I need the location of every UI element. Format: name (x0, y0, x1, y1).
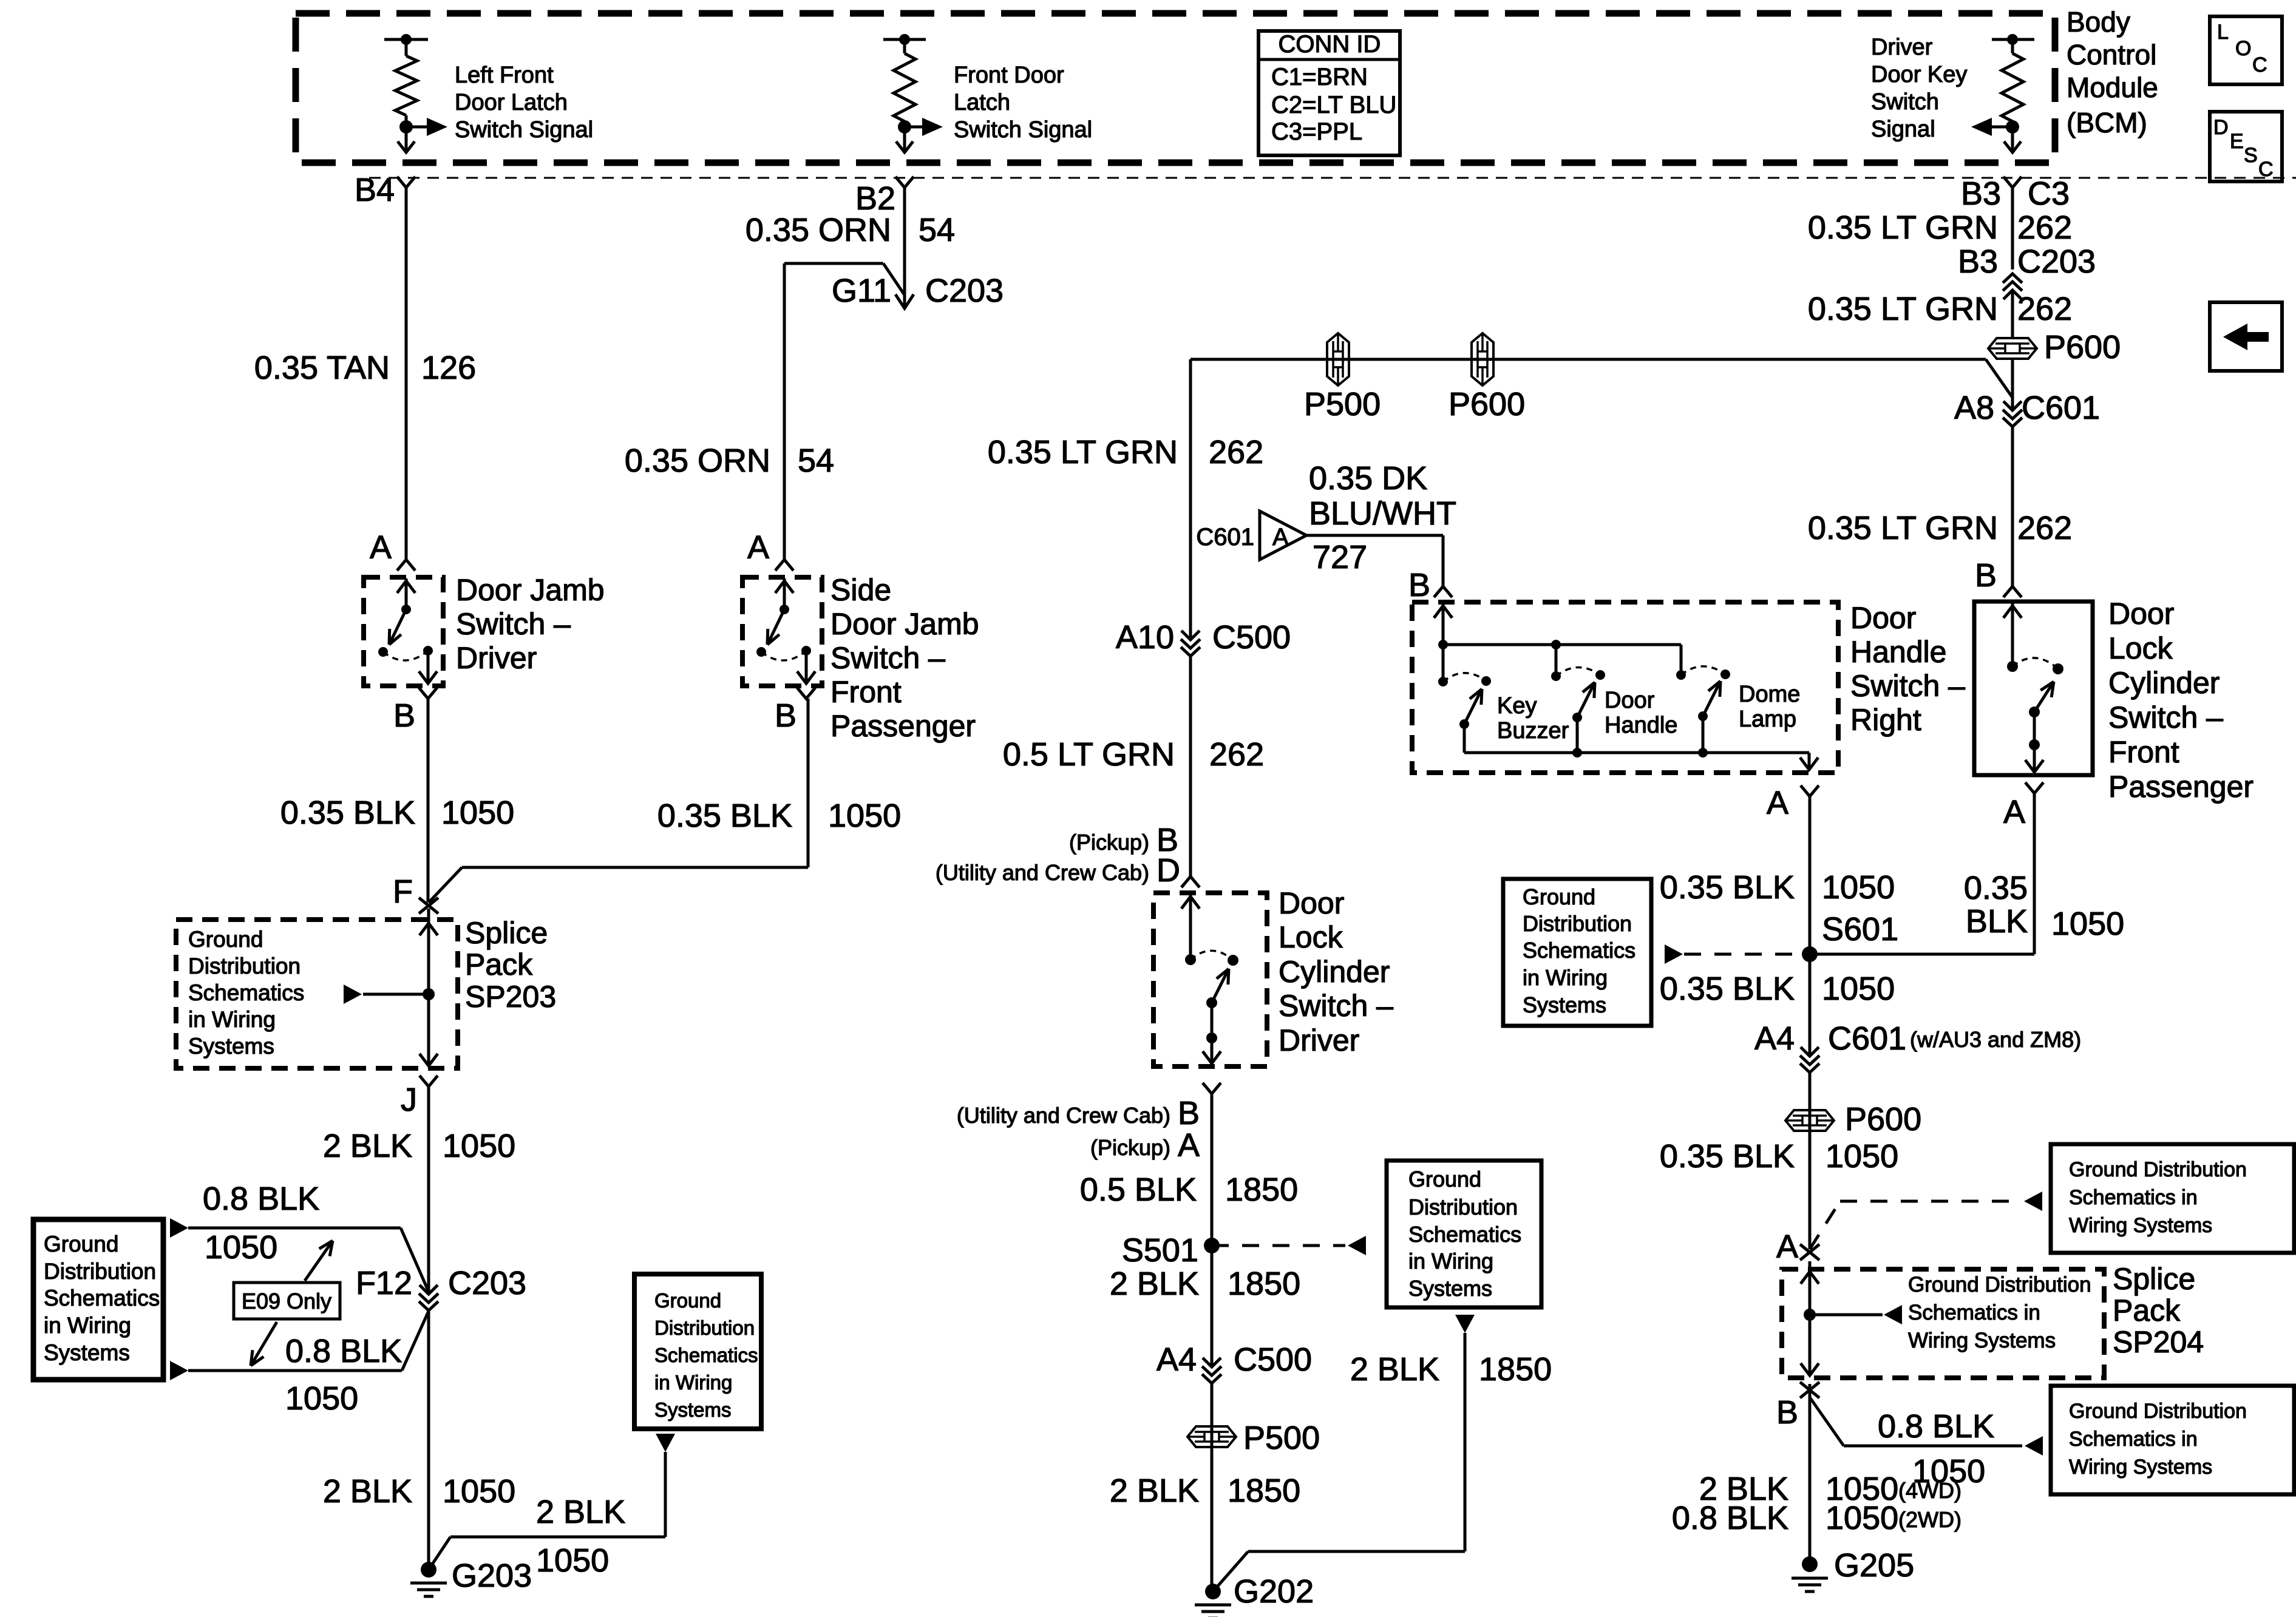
svg-text:0.8 BLK: 0.8 BLK (285, 1333, 402, 1369)
svg-text:Switch Signal: Switch Signal (954, 117, 1092, 143)
dashed reference wire A to box (1810, 1192, 2042, 1249)
svg-text:F12: F12 (356, 1265, 412, 1301)
svg-text:(4WD): (4WD) (1898, 1478, 1961, 1503)
label 2 BLK 1850 lower (1110, 1473, 1300, 1509)
svg-text:B3: B3 (1958, 243, 1998, 280)
ground distribution ref box mid-left (634, 1274, 761, 1429)
svg-text:P600: P600 (1449, 386, 1525, 422)
connector A door jamb driver (370, 529, 415, 571)
svg-text:S601: S601 (1822, 911, 1898, 947)
ground distribution ref box S601 (1503, 879, 1651, 1026)
svg-text:Ground: Ground (1408, 1167, 1481, 1192)
ground distribution ref box B (2051, 1386, 2294, 1494)
svg-text:2 BLK: 2 BLK (323, 1473, 412, 1510)
svg-text:Pack: Pack (465, 947, 533, 981)
svg-text:1050: 1050 (443, 1473, 515, 1510)
svg-text:Switch –: Switch – (1850, 669, 1965, 703)
svg-text:0.35 BLK: 0.35 BLK (1660, 971, 1795, 1007)
svg-text:1050: 1050 (443, 1128, 515, 1164)
wire 0.5 BLK 1850 (1211, 1094, 1214, 1367)
svg-text:Ground Distribution: Ground Distribution (2069, 1400, 2247, 1423)
connector below driver cylinder switch (1203, 1083, 1221, 1094)
svg-text:Ground: Ground (1523, 884, 1595, 909)
FP cylinder entry arrow (2003, 603, 2022, 666)
grommet P500 on bus (1304, 333, 1381, 422)
svg-text:in Wiring: in Wiring (44, 1313, 131, 1338)
svg-text:C601: C601 (2022, 390, 2100, 426)
svg-text:1050: 1050 (1826, 1500, 1898, 1536)
label B3 C3 (1961, 175, 2070, 212)
svg-text:0.35 TAN: 0.35 TAN (254, 350, 390, 386)
arrow left-front switch signal (406, 118, 447, 136)
connector A above SP204 (1776, 1229, 1819, 1265)
ground distribution ref box A (2051, 1144, 2294, 1253)
label 2 BLK 1050 lower-left (323, 1473, 515, 1510)
svg-text:A4: A4 (1754, 1020, 1795, 1057)
driver cylinder blade arrow (1212, 969, 1229, 1003)
svg-text:2 BLK: 2 BLK (536, 1494, 625, 1530)
svg-text:C500: C500 (1234, 1341, 1312, 1378)
svg-text:Ground: Ground (44, 1232, 118, 1256)
wire 0.35 TAN 126 (405, 188, 408, 560)
label 2 BLK 1050 branch (536, 1494, 625, 1579)
svg-text:Switch –: Switch – (830, 641, 945, 675)
svg-text:1050: 1050 (536, 1542, 609, 1579)
svg-text:Schematics in: Schematics in (2069, 1428, 2198, 1451)
svg-text:0.8 BLK: 0.8 BLK (203, 1181, 319, 1217)
door handle bottom bus (1464, 753, 1818, 770)
svg-text:B: B (775, 697, 796, 734)
svg-text:Pack: Pack (2113, 1293, 2181, 1327)
svg-text:Schematics: Schematics (1408, 1222, 1521, 1247)
svg-text:(Utility and Crew Cab): (Utility and Crew Cab) (957, 1103, 1170, 1128)
connector B door handle switch (1408, 567, 1452, 603)
label 0.35 DK BLU/WHT 727 (1309, 460, 1456, 575)
wire 0.35 ORN 54 upper (903, 188, 906, 307)
node front-door switch-signal junction (898, 120, 911, 134)
connector B4 at BCM (355, 172, 415, 208)
connector B2 at BCM (855, 177, 914, 217)
junction F splice (393, 873, 438, 914)
svg-text:Module: Module (2067, 72, 2158, 103)
BCM label text Body Control Module (BCM) (2067, 6, 2158, 138)
label 0.35 LT GRN 262 mid (988, 434, 1263, 470)
svg-text:in Wiring: in Wiring (188, 1007, 276, 1032)
svg-text:CONN ID: CONN ID (1279, 31, 1381, 58)
svg-text:727: 727 (1313, 539, 1367, 575)
label 0.35 BLK 1050 left (280, 795, 514, 831)
svg-text:Door Jamb: Door Jamb (456, 573, 605, 607)
door lock cylinder switch driver dashed box (1153, 893, 1267, 1066)
connector B3 C3 at BCM (2003, 177, 2022, 188)
wire 0.35 LT GRN 262 top (2011, 188, 2014, 269)
svg-text:BLK: BLK (1966, 903, 2028, 940)
label 2 BLK 1050 4WD (1699, 1471, 1961, 1507)
svg-text:Buzzer: Buzzer (1497, 718, 1569, 744)
svg-text:P500: P500 (1304, 386, 1381, 422)
connector B3 C203 inline up (2003, 274, 2022, 299)
wire left-front signal to BCM edge (398, 127, 415, 152)
svg-text:0.35 BLK: 0.35 BLK (280, 795, 415, 831)
side jamb entry arrow (775, 578, 793, 609)
side jamb arc (761, 651, 806, 660)
wire door handle A to S601 (1809, 796, 1812, 954)
label 0.35 BLK 1050 below S601 (1660, 971, 1895, 1007)
label Key Buzzer (1497, 693, 1569, 744)
svg-text:in Wiring: in Wiring (1408, 1249, 1493, 1273)
svg-text:Switch –: Switch – (1279, 989, 1393, 1023)
svg-text:Schematics in: Schematics in (1908, 1301, 2040, 1324)
svg-text:Schematics: Schematics (654, 1344, 758, 1366)
svg-text:Driver: Driver (456, 641, 537, 675)
connector B door lock cylinder FP (1975, 557, 2022, 597)
svg-text:0.5 LT GRN: 0.5 LT GRN (1003, 736, 1175, 773)
svg-text:Systems: Systems (44, 1340, 130, 1365)
SP203 junction dot (423, 988, 435, 1000)
CONN ID table box (1258, 31, 1400, 155)
S501 dashed reference wire (1212, 1236, 1366, 1255)
svg-text:Driver: Driver (1279, 1023, 1359, 1057)
door handle switch right dashed box (1412, 602, 1838, 773)
svg-text:A: A (1272, 524, 1289, 551)
Body Control Module (BCM) dashed outline box (296, 13, 2055, 163)
resistor driver door key switch pull-up (1992, 34, 2034, 135)
svg-text:Latch: Latch (954, 90, 1010, 115)
svg-text:Wiring Systems: Wiring Systems (2069, 1456, 2212, 1479)
svg-text:Door: Door (1605, 688, 1655, 713)
label (Utility and Crew Cab) B (957, 1095, 1200, 1131)
svg-text:SP203: SP203 (465, 980, 556, 1014)
svg-text:262: 262 (2017, 291, 2072, 327)
svg-text:C601: C601 (1828, 1020, 1906, 1057)
connector A4 C601 (1754, 1020, 2081, 1073)
svg-text:Front Door: Front Door (954, 63, 1064, 88)
door jamb driver arc (383, 651, 428, 660)
wire 0.8 BLK 1050 upper branch (170, 1218, 429, 1292)
wire branch G202 to ref box S501 (1213, 1315, 1475, 1592)
connector A side door jamb (747, 529, 793, 571)
svg-text:1050: 1050 (1826, 1138, 1898, 1175)
label 0.35 TAN 126 (254, 350, 476, 386)
svg-text:(Utility and Crew Cab): (Utility and Crew Cab) (936, 860, 1149, 885)
door jamb switch driver dashed box (364, 577, 443, 686)
svg-text:B3: B3 (1961, 175, 2001, 212)
svg-text:G203: G203 (452, 1558, 532, 1594)
svg-text:Splice: Splice (465, 916, 548, 950)
connector A below FP cylinder switch (2003, 782, 2043, 830)
svg-text:B: B (1975, 557, 1997, 594)
svg-text:C1=BRN: C1=BRN (1271, 64, 1368, 90)
svg-text:Schematics: Schematics (44, 1286, 160, 1310)
svg-text:0.35 LT GRN: 0.35 LT GRN (1808, 291, 1998, 327)
svg-text:Splice: Splice (2113, 1262, 2195, 1296)
label 0.35 BLK 1050 FP (1964, 870, 2124, 942)
label 0.5 LT GRN 262 (1003, 736, 1264, 773)
label 0.35 BLK 1050 below P600 (1660, 1138, 1898, 1175)
svg-text:1850: 1850 (1479, 1351, 1552, 1388)
svg-text:Wiring Systems: Wiring Systems (1908, 1329, 2056, 1352)
ground G203 (410, 1558, 532, 1596)
svg-text:Control: Control (2067, 39, 2156, 70)
door jamb driver contact dots (378, 605, 433, 657)
svg-text:1050: 1050 (205, 1229, 277, 1266)
svg-text:Distribution: Distribution (44, 1259, 156, 1284)
arrow front-door switch signal (905, 118, 943, 136)
svg-text:C601: C601 (1196, 524, 1254, 551)
svg-text:(BCM): (BCM) (2067, 107, 2147, 138)
wire into SP204 (1809, 1261, 1812, 1315)
grommet P600 bottom (1785, 1101, 1921, 1137)
svg-text:2 BLK: 2 BLK (1110, 1473, 1199, 1509)
SP204 entry arrow (1801, 1272, 1819, 1284)
svg-text:0.35 BLK: 0.35 BLK (1660, 869, 1795, 906)
svg-text:Handle: Handle (1605, 713, 1677, 738)
svg-text:BLU/WHT: BLU/WHT (1309, 495, 1456, 532)
side jamb blade (767, 609, 784, 645)
svg-text:Door: Door (2108, 597, 2174, 631)
svg-text:1850: 1850 (1225, 1171, 1298, 1208)
label 0.35 ORN 54 lower (625, 442, 834, 479)
svg-text:B: B (393, 697, 415, 734)
label 2 BLK 1050 upper-left (323, 1128, 515, 1164)
svg-text:54: 54 (798, 442, 834, 479)
svg-text:Door Latch: Door Latch (455, 90, 568, 115)
svg-text:S: S (2244, 144, 2258, 167)
wire side-jamb branch to F (429, 699, 808, 903)
svg-text:P600: P600 (1845, 1101, 1921, 1137)
label Door Handle (1605, 688, 1677, 738)
svg-text:Key: Key (1497, 693, 1537, 719)
svg-text:Switch Signal: Switch Signal (455, 117, 593, 143)
svg-text:O: O (2235, 37, 2251, 60)
svg-text:Schematics in: Schematics in (2069, 1186, 2198, 1209)
label 0.35 BLK 1050 side (657, 798, 901, 834)
DESC legend box (2210, 112, 2282, 181)
FP cylinder arc (2012, 658, 2058, 669)
ground distribution ref box S501 (1387, 1161, 1541, 1307)
wire 0.8 BLK 1050 branch right (1810, 1397, 2043, 1456)
svg-text:126: 126 (421, 350, 476, 386)
SP203 internal text Ground Distribution Schematics in Wiring Systems (188, 927, 304, 1059)
connector F12 C203 (356, 1265, 526, 1310)
wire driver-key signal to BCM edge (2004, 127, 2021, 152)
dome lamp switch (1676, 645, 1730, 758)
svg-text:Side: Side (830, 573, 891, 607)
svg-text:B4: B4 (355, 172, 395, 208)
svg-text:Door Jamb: Door Jamb (830, 607, 979, 641)
connector A below door handle switch (1767, 785, 1819, 821)
svg-text:E09 Only: E09 Only (242, 1289, 331, 1314)
connector G11 C203 terminal arrow (832, 273, 1004, 309)
svg-text:Lock: Lock (1279, 920, 1343, 954)
svg-text:Body: Body (2067, 6, 2130, 38)
svg-text:Systems: Systems (188, 1034, 274, 1059)
E09 Only box (234, 1283, 340, 1319)
svg-text:Dome: Dome (1739, 682, 1800, 707)
svg-text:Door: Door (1850, 601, 1916, 635)
wire 0.35 DK BLU/WHT 727 (1306, 535, 1443, 586)
S601 dashed reference wire (1665, 944, 1810, 964)
svg-text:262: 262 (1209, 434, 1263, 470)
svg-text:1050: 1050 (285, 1380, 358, 1417)
label Side Door Jamb Switch Front Passenger (830, 573, 979, 743)
LOC legend box (2210, 16, 2282, 84)
side jamb output arrow (797, 651, 815, 683)
svg-text:Schematics: Schematics (188, 980, 304, 1005)
svg-text:Door: Door (1279, 886, 1344, 920)
door lock cylinder switch front passenger box (1974, 602, 2093, 775)
svg-text:A: A (2003, 794, 2025, 830)
svg-text:Wiring Systems: Wiring Systems (2069, 1214, 2212, 1237)
svg-text:0.35: 0.35 (1964, 870, 2028, 906)
ground G205 (1792, 1547, 1914, 1592)
svg-text:0.35 BLK: 0.35 BLK (657, 798, 792, 834)
svg-text:G202: G202 (1234, 1573, 1314, 1610)
label Left Front Door Latch Switch Signal (455, 63, 593, 143)
svg-text:1050: 1050 (1822, 971, 1895, 1007)
wire 2 BLK 1050 upper (427, 1086, 430, 1294)
FP cylinder exit arrow (2025, 712, 2043, 772)
connector B below side jamb switch (775, 688, 815, 734)
label 0.8 BLK 1050 right (1878, 1408, 1994, 1490)
label 0.35 LT GRN 262 third (1808, 510, 2072, 546)
label 0.35 LT GRN 262 top (1808, 209, 2072, 246)
svg-text:0.35 LT GRN: 0.35 LT GRN (1808, 510, 1998, 546)
svg-text:Ground Distribution: Ground Distribution (2069, 1158, 2247, 1181)
svg-text:A10: A10 (1116, 619, 1174, 656)
label 0.8 BLK 1050 2WD (1672, 1500, 1961, 1536)
wire P600 to A8 (2011, 359, 2014, 410)
ground distribution ref box left (33, 1219, 163, 1380)
svg-text:A8: A8 (1954, 390, 1994, 426)
svg-text:262: 262 (1209, 736, 1264, 773)
svg-text:1050: 1050 (828, 798, 901, 834)
label 0.35 LT GRN 262 second (1808, 291, 2072, 327)
grommet P600 on bus (1449, 333, 1525, 422)
SP204 internal text (1908, 1273, 2091, 1352)
label Door Lock Cylinder Switch Front Passenger (2108, 597, 2254, 804)
svg-text:54: 54 (919, 212, 955, 248)
svg-text:0.35 BLK: 0.35 BLK (1660, 1138, 1795, 1175)
SP204 junction dot (1804, 1309, 1816, 1321)
splice pack SP204 dashed box (1782, 1269, 2104, 1378)
wire FP A to S601 (1810, 793, 2034, 954)
svg-text:262: 262 (2017, 209, 2072, 246)
svg-text:Front: Front (2108, 735, 2179, 769)
svg-text:0.35 LT GRN: 0.35 LT GRN (1808, 209, 1998, 246)
SP203 exit arrow (419, 994, 438, 1066)
svg-text:Switch: Switch (1871, 89, 1939, 115)
svg-text:2 BLK: 2 BLK (323, 1128, 412, 1164)
svg-text:0.35 DK: 0.35 DK (1309, 460, 1427, 497)
svg-text:D: D (2213, 116, 2229, 139)
connector into driver lock cylinder switch (1181, 876, 1200, 887)
E09 arrow to lower branch (251, 1322, 277, 1366)
label 0.35 ORN 54 upper (746, 212, 955, 248)
junction S601 (1802, 911, 1898, 962)
svg-text:Left Front: Left Front (455, 63, 554, 88)
svg-text:A: A (1178, 1127, 1200, 1164)
label Door Jamb Switch Driver (456, 573, 605, 675)
label Door Handle Switch Right (1850, 601, 1965, 737)
wire to P500 (1211, 1383, 1214, 1592)
off-page triangle C601 A (1196, 511, 1306, 560)
svg-text:Door Key: Door Key (1871, 62, 1967, 87)
ground G202 (1195, 1573, 1314, 1617)
svg-text:F: F (393, 873, 413, 910)
svg-text:Front: Front (830, 675, 902, 709)
wire front-door signal to BCM edge (896, 127, 913, 152)
FP cylinder pivot dots (2029, 707, 2040, 750)
label 0.5 BLK 1850 (1080, 1171, 1298, 1208)
svg-text:Signal: Signal (1871, 117, 1935, 142)
svg-text:Distribution: Distribution (1523, 911, 1632, 936)
svg-text:Distribution: Distribution (188, 954, 301, 978)
label 0.8 BLK upper (203, 1181, 319, 1266)
label (Pickup) A (1090, 1127, 1200, 1164)
key buzzer switch (1438, 640, 1491, 753)
node driver-door-key signal junction (2006, 120, 2019, 134)
svg-text:P500: P500 (1243, 1420, 1320, 1456)
svg-text:(2WD): (2WD) (1898, 1507, 1961, 1532)
svg-text:(Pickup): (Pickup) (1069, 830, 1149, 855)
svg-text:Systems: Systems (654, 1398, 732, 1421)
driver cylinder arc (1190, 951, 1233, 960)
svg-text:Ground: Ground (654, 1289, 721, 1312)
SP204 exit arrow (1801, 1315, 1819, 1375)
grommet P600 right column (1988, 329, 2121, 365)
svg-text:S501: S501 (1122, 1232, 1198, 1269)
svg-text:C500: C500 (1212, 619, 1291, 656)
FP cylinder blade arrow (2034, 682, 2054, 712)
connector J below SP203 (401, 1076, 438, 1118)
svg-text:1850: 1850 (1228, 1266, 1300, 1302)
bus wire with P500 P600 pass-throughs (1190, 359, 2012, 640)
svg-text:1050: 1050 (1822, 869, 1895, 906)
svg-text:G11: G11 (832, 273, 891, 309)
connector B below driver jamb switch (393, 688, 437, 734)
label 0.35 BLK 1050 door handle (1660, 869, 1895, 906)
door handle top bus (1443, 643, 1681, 646)
svg-text:B: B (1408, 567, 1430, 603)
FP cylinder contacts (2007, 661, 2063, 674)
driver cylinder entry arrow (1181, 894, 1200, 960)
wire 0.35 BLK 1050 driver jamb to F (427, 699, 430, 903)
svg-text:Passenger: Passenger (2108, 770, 2254, 804)
label Door Lock Cylinder Switch Driver (1279, 886, 1393, 1057)
svg-text:C203: C203 (448, 1265, 526, 1301)
door jamb driver entry arrow (397, 578, 415, 609)
svg-text:0.5 BLK: 0.5 BLK (1080, 1171, 1197, 1208)
door handle switch contact (1551, 640, 1605, 758)
svg-text:J: J (401, 1082, 417, 1118)
SP203 entry arrow (419, 909, 438, 994)
svg-text:2 BLK: 2 BLK (1350, 1351, 1439, 1388)
label Dome Lamp (1739, 682, 1800, 732)
node left-front switch-signal junction (399, 120, 413, 134)
label B3 C203 (1958, 243, 2096, 280)
svg-text:0.35 ORN: 0.35 ORN (625, 442, 770, 479)
svg-text:Distribution: Distribution (1408, 1195, 1518, 1219)
driver cylinder contacts (1185, 954, 1238, 966)
wire jog to side jamb switch (784, 263, 905, 560)
wire SP204 B to G205 (1809, 1384, 1812, 1564)
svg-text:Distribution: Distribution (654, 1317, 755, 1339)
svg-text:0.8 BLK: 0.8 BLK (1672, 1500, 1788, 1536)
label Splice Pack SP203 (465, 916, 556, 1014)
label (Pickup) B (1069, 822, 1178, 858)
driver cylinder pivot dots (1206, 997, 1217, 1043)
